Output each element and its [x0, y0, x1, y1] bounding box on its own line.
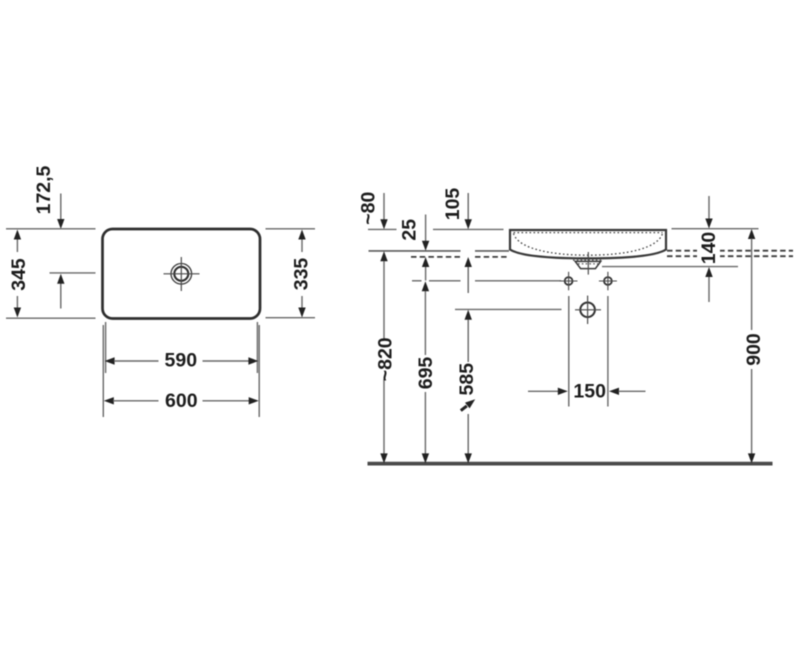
dimension 25 lower arrow line: [422, 257, 429, 281]
washtop level dashed line right: [667, 250, 793, 252]
floor line: [368, 462, 773, 466]
dimension 590 line left segment: [105, 357, 159, 364]
drain trap dotted detail: [573, 260, 603, 264]
dimension 590 line right segment: [203, 357, 259, 364]
dimension 335 line lower segment: [298, 296, 305, 318]
svg-text:140: 140: [698, 232, 720, 265]
slope arrow next to 585: [461, 399, 475, 410]
dimension 345 line upper segment: [14, 230, 21, 253]
dimension 590 label: [165, 350, 198, 372]
drain hole circle (front view): [575, 296, 601, 324]
drain trap centreline: [587, 252, 589, 275]
basin inner rim dotted line: [514, 232, 663, 234]
left hole extension line (dim 150): [568, 296, 570, 407]
dimension 140 label: [697, 232, 720, 265]
washtop level solid line left: [369, 250, 510, 252]
svg-text:585: 585: [456, 363, 478, 396]
dimension 172,5 upper arrow line: [57, 194, 64, 230]
dimension 335 label: [291, 258, 313, 291]
drain trap outline: [575, 261, 601, 268]
dimension 25 label: [398, 219, 420, 241]
svg-text:172,5: 172,5: [33, 165, 55, 214]
trap bottom extension line (dim 140): [602, 266, 738, 268]
lower rim dashed line left: [411, 256, 509, 258]
dimension 335 line upper segment: [298, 230, 305, 253]
dimension 150 label: [573, 380, 606, 402]
dimension 335 bottom extension line: [266, 317, 316, 319]
svg-text:600: 600: [165, 390, 198, 412]
dimension 585 label: [456, 363, 478, 396]
lower rim dashed line right: [667, 255, 793, 257]
drain centre extension line (dim 585): [455, 308, 562, 310]
dimension 600 line left segment: [104, 397, 159, 404]
dimension 172,5 label: [33, 165, 55, 214]
dimension ~820 arrow line: [380, 251, 387, 463]
drain inner circle (top view): [174, 267, 188, 281]
dimension 345 bottom extension line: [6, 317, 96, 319]
basin top view outline: [103, 229, 261, 319]
right fixing hole: [599, 272, 617, 291]
dimension 345 label: [8, 258, 30, 291]
dimension 600 label: [165, 390, 198, 412]
svg-text:150: 150: [573, 380, 606, 402]
dimension 140 upper arrow line: [705, 196, 712, 229]
dimension 585 arrow line: [465, 310, 472, 464]
dimension 105 label: [442, 188, 464, 221]
right hole extension line (dim 150): [607, 296, 609, 407]
rim top extension line right: [672, 228, 759, 230]
drain outer circle (top view): [171, 264, 192, 285]
fixing holes extension line (dim 695): [412, 280, 561, 282]
dimension 345 line lower segment: [14, 296, 21, 318]
left fixing hole: [560, 272, 578, 291]
basin inner bowl dotted curve: [514, 234, 663, 256]
svg-text:~820: ~820: [375, 337, 397, 381]
svg-text:345: 345: [8, 258, 30, 291]
svg-text:590: 590: [165, 350, 198, 372]
dimension 105 upper arrow line: [465, 193, 472, 229]
svg-text:~80: ~80: [358, 192, 380, 225]
svg-text:695: 695: [415, 357, 437, 390]
dimension ~820 label: [375, 337, 397, 381]
dimension 600 right extension line: [258, 325, 260, 417]
dimension 590 left extension line: [105, 322, 107, 373]
dimension 172,5 lower arrow line: [57, 274, 64, 309]
tick line for dim 105: [433, 228, 504, 230]
svg-text:900: 900: [743, 333, 765, 366]
dimension 600 left extension line: [102, 325, 104, 417]
dimension 140 lower arrow line: [705, 267, 712, 302]
dimension 695 arrow line: [422, 281, 429, 463]
dimension 900 label: [743, 333, 765, 366]
drain crosshair vertical (top view): [180, 257, 182, 291]
dimension ~80 arrow line: [380, 193, 387, 229]
dimension 25 upper arrow line: [422, 215, 429, 251]
dimension ~80 label: [358, 192, 380, 225]
dimension 105 lower arrow line: [465, 257, 472, 293]
dimension 150 left leader: [528, 388, 568, 395]
svg-text:105: 105: [442, 188, 464, 221]
dimension 345 top extension line: [6, 228, 96, 230]
dimension 150 right leader: [609, 388, 646, 395]
drain crosshair horizontal (top view): [164, 273, 200, 275]
dimension 600 line right segment: [203, 397, 259, 404]
basin front outline: [510, 230, 666, 258]
tick line for dim 80: [368, 228, 397, 230]
dimension 590 right extension line: [256, 322, 258, 373]
dimension 335 top extension line: [266, 228, 316, 230]
svg-text:335: 335: [291, 258, 313, 291]
dimension 172,5 extension line at drain centre: [50, 272, 96, 274]
svg-text:25: 25: [398, 219, 420, 241]
dimension 695 label: [415, 357, 437, 390]
dimension 900 arrow line: [748, 229, 755, 463]
